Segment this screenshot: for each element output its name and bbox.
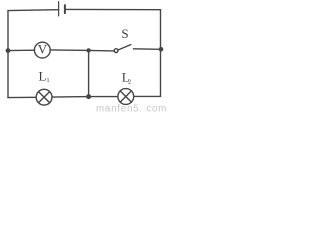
svg-text:2: 2 — [128, 78, 131, 85]
svg-text:S: S — [121, 26, 128, 41]
svg-text:L: L — [39, 69, 47, 84]
svg-text:1: 1 — [46, 77, 49, 84]
svg-text:V: V — [38, 43, 48, 57]
svg-text:manfen5. com: manfen5. com — [96, 103, 167, 112]
